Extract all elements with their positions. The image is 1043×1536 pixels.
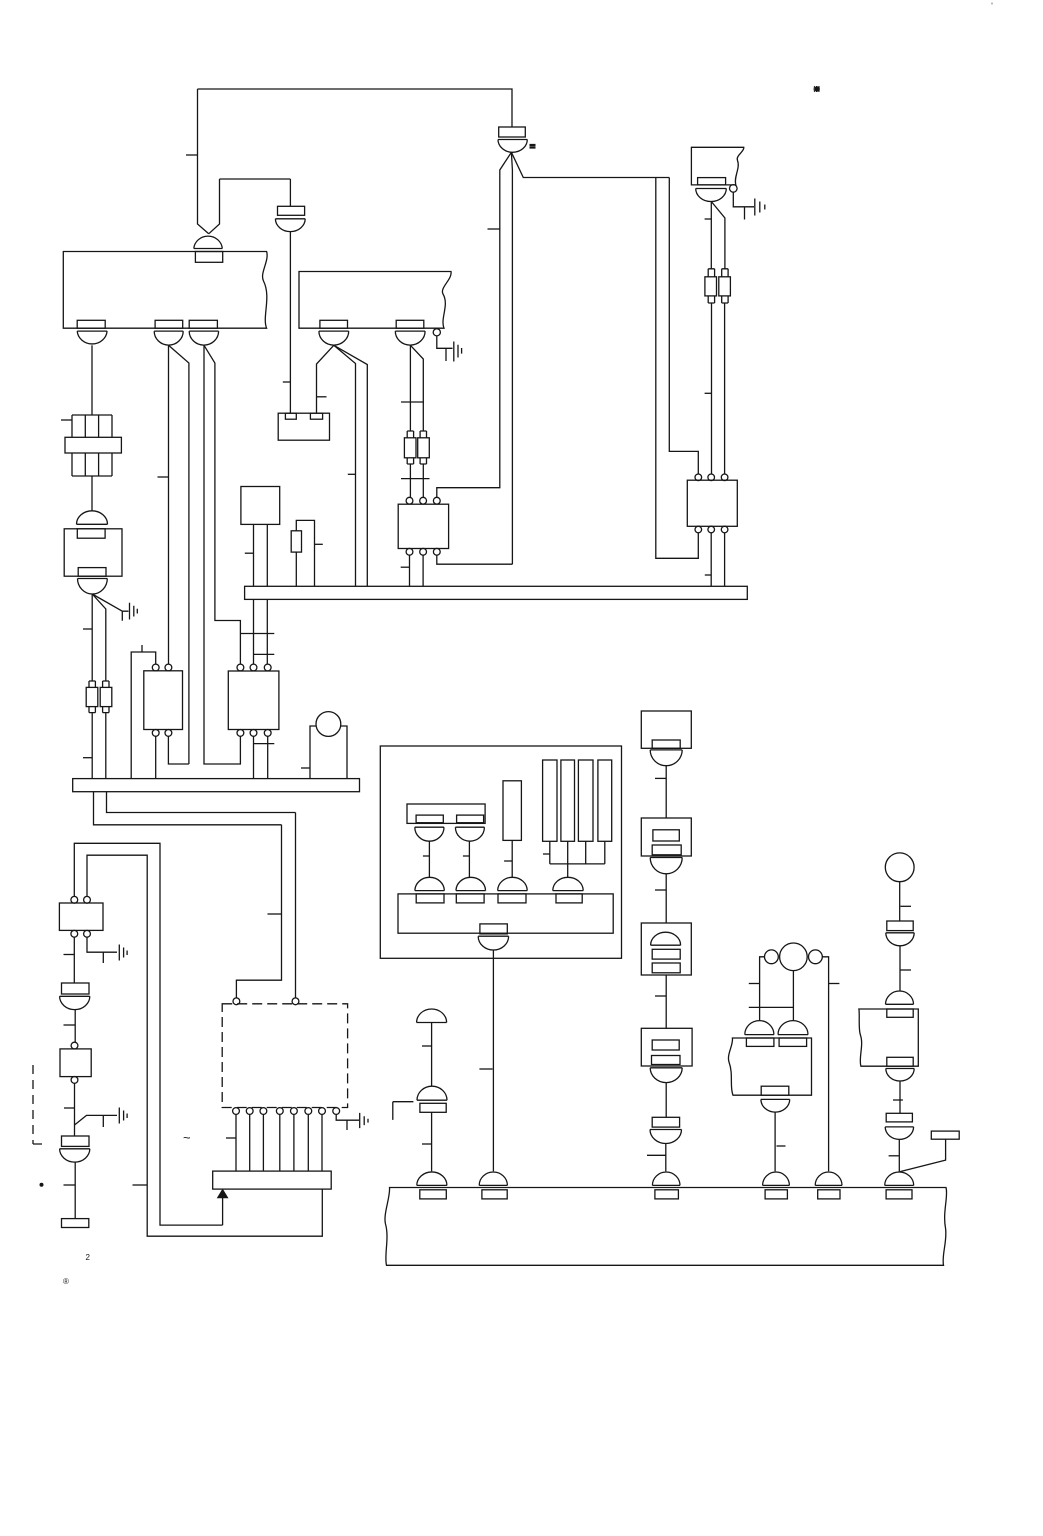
wire K2 bell down x92	[91, 594, 93, 681]
connector bell bar pin1	[415, 827, 444, 841]
washer motor assembly left small circle	[765, 950, 779, 964]
washer motor right small circle	[809, 950, 823, 964]
wire F5 down to relay R3	[711, 303, 713, 474]
S1 inner rect2	[652, 845, 681, 855]
motor bracket left	[760, 957, 765, 1021]
fuse F5 inline	[708, 269, 714, 277]
wire x295 down to ECU pin2	[295, 813, 297, 998]
warning lamp rect2	[561, 760, 575, 841]
wire connector C12 down to junction block	[289, 232, 291, 414]
connector C3 rect	[62, 1136, 90, 1146]
dome inside P1	[651, 932, 681, 945]
wire K2 bell diagonal x105	[92, 594, 106, 681]
switch lever rect	[931, 1131, 959, 1139]
svg-text:®: ®	[63, 1277, 69, 1286]
wire bar pin2 to gauge dome2	[468, 841, 470, 877]
wire F2 to relay R2 pin	[422, 464, 424, 497]
fuse F1 inline	[407, 431, 413, 438]
LB pin circles bottom	[71, 930, 78, 937]
wire R2 bottom pin1 to bus1	[409, 555, 411, 586]
wire C10 straight down x512	[511, 152, 512, 564]
S2 inner rect2	[652, 1056, 681, 1065]
wire box2 pin1 diagonal to junction block	[317, 345, 334, 413]
relay R4 pin circles bottom	[237, 730, 244, 737]
tick on wire x197	[186, 154, 198, 156]
wire F1 to relay R2 pin	[409, 464, 411, 497]
warning lamp rect4	[598, 760, 612, 841]
component box K2	[64, 529, 122, 576]
tick x431 upper	[422, 1045, 432, 1047]
tick on wire x314	[315, 543, 323, 545]
connector rect in H1	[652, 740, 680, 748]
tick x666 y996	[655, 995, 666, 997]
dome on bus3 wiper	[763, 1172, 790, 1185]
tick on wire x281	[268, 913, 282, 915]
instrument cluster outer box	[380, 746, 621, 958]
wire C31 to bus3	[898, 1139, 900, 1171]
socket rect bus3 wiper	[765, 1190, 787, 1199]
wire J2 to bus1 right	[266, 524, 268, 586]
wiper connector bell up1	[745, 1021, 774, 1035]
terminal lug	[62, 1219, 89, 1228]
wire bus1 to relay RB pin2	[253, 599, 255, 664]
radio box with torn left edge	[859, 1009, 918, 1066]
wire drop x669 to R3 top pin1	[669, 178, 698, 475]
cluster dome1	[415, 877, 444, 890]
blower switch box S2	[641, 1028, 692, 1066]
connector rect wiper bottom	[761, 1086, 789, 1095]
socket rect under dome2	[456, 894, 484, 903]
svg-text:~: ~	[183, 1130, 191, 1145]
connector rect in B3 bottom	[698, 178, 726, 185]
wire C1 down to dome	[91, 476, 93, 511]
horn circle	[316, 712, 341, 737]
relay R4 pin circles top	[237, 664, 244, 671]
wire drop x655 to R3 bottom pin1	[656, 178, 699, 559]
wire resistor bottom to bus1	[295, 552, 297, 586]
connector rect radio top	[887, 1009, 913, 1017]
connector C20 rect	[652, 1117, 679, 1127]
dome on bus3 washer	[417, 1172, 447, 1185]
tick vertical on loop	[141, 645, 143, 652]
tick on wire x711 at bus	[705, 574, 711, 576]
dome on bus3 cluster	[479, 1172, 507, 1185]
tick x493	[479, 1068, 492, 1070]
tick on horn body	[301, 767, 310, 769]
sensor box pin circle top	[71, 1042, 78, 1049]
wire R2 bottom pin3 to long feed x512	[437, 555, 513, 564]
multiplug connector stack C1	[72, 415, 112, 437]
wire washer to bus3	[431, 1112, 433, 1171]
connector C12 socket bell	[275, 219, 305, 232]
wire radio down	[899, 1081, 901, 1113]
washer motor big circle	[780, 943, 808, 971]
relay R4 box	[228, 671, 279, 730]
tick on wire x316	[317, 396, 327, 398]
wire R4 bottom pin2 to bus2	[253, 736, 255, 778]
ECU pin wires to connector bar	[236, 1114, 322, 1171]
wire R2 top pin3 to long feed x500	[437, 488, 501, 498]
tick on wire x499	[488, 228, 500, 230]
wire big circle down	[792, 971, 794, 1021]
cable tick crossing fuse wires y402	[401, 401, 424, 403]
wire antenna down	[899, 882, 901, 921]
connector rect wiper top1	[746, 1038, 774, 1046]
connector bell under H1	[650, 750, 682, 766]
wire S2 down	[665, 1083, 667, 1118]
wire x281 down to ECU pin1	[236, 825, 281, 998]
tick on wire x74 y954	[64, 954, 75, 956]
wire box2 pin2 down to fuse F1	[409, 345, 411, 431]
LB pin circles top	[71, 896, 78, 903]
wire C30 down	[899, 946, 901, 991]
wire LB top pin1 long loop	[74, 843, 222, 1225]
sensor box pin circle bottom	[71, 1077, 78, 1084]
tick on wire x92 lower	[83, 757, 92, 759]
cluster dome3	[498, 877, 528, 890]
connector bell under S1	[650, 858, 682, 874]
cable tick crossing fuse wires y478	[401, 478, 430, 480]
tiny label 4M	[530, 145, 536, 148]
wire bus1 to relay RB pin3	[266, 599, 268, 664]
relay R2 pin circles top	[406, 497, 413, 504]
wire R2 bottom pin2 to bus1	[422, 555, 424, 586]
left junction box LB	[59, 903, 103, 930]
horn rectangle body	[310, 726, 347, 779]
wire sensor down	[74, 1083, 76, 1136]
connector bell bar bottom	[478, 936, 508, 950]
connector rect pin1 box2	[320, 320, 348, 328]
connector rect pin2 box2	[396, 320, 424, 328]
warning lamp rect3	[578, 760, 593, 841]
wire branch horizontal y179	[220, 178, 291, 180]
ECU pin circle top2	[292, 998, 299, 1005]
ECU pin circle top1	[233, 998, 240, 1005]
connector bell radio bottom	[886, 1069, 914, 1082]
connector dome on fuse box top	[194, 236, 223, 248]
bus bar 1	[245, 586, 748, 599]
wire box2 pin1 branch to bus x367	[334, 345, 368, 586]
wiper connector bell up2	[778, 1021, 808, 1035]
wire P1 down	[665, 975, 667, 1028]
wire pin3 bell straight down x204	[204, 345, 240, 764]
tick on wire x355	[348, 473, 356, 475]
S1 inner rect1	[653, 830, 679, 841]
tick x774	[777, 1145, 786, 1147]
connector C20 bell	[650, 1130, 682, 1144]
resistor R	[291, 531, 301, 552]
tick x470	[463, 855, 470, 857]
relay R2 pin circles bottom	[406, 548, 413, 555]
cable tick crossing y633	[241, 633, 274, 635]
socket rect bus3 cluster	[482, 1190, 507, 1199]
dome above K2 box	[77, 511, 108, 524]
junction box J2	[241, 487, 280, 525]
cluster dome4	[553, 877, 583, 890]
fuse F4 inline	[103, 681, 109, 687]
ECU pin circles bottom	[233, 1108, 240, 1115]
connector bell pin2 box2	[395, 331, 425, 345]
wire gauge element to dome3	[511, 840, 513, 877]
socket rect under dome3	[498, 894, 526, 903]
wire box2 pin2 diagonal to fuse F2	[410, 345, 423, 431]
fuse F3 inline	[89, 681, 95, 687]
bracket at washer connector	[393, 1102, 414, 1120]
cluster inner top bar	[407, 804, 485, 823]
ground pigtail circle at B3	[730, 185, 738, 193]
tick x666 y778	[655, 777, 666, 779]
connector rect inside fuse box top	[195, 252, 222, 263]
tick on wire x74 y1025	[64, 1024, 76, 1026]
connector C31 bell	[885, 1127, 913, 1139]
wire C10 branch right to ignition feed	[511, 152, 669, 177]
dome on bus3 heater	[652, 1172, 680, 1185]
cluster inner bottom bar	[398, 894, 613, 933]
relay R1 box	[144, 671, 183, 730]
tick x899 y1156	[889, 1155, 899, 1157]
socket rect under dome4	[556, 894, 582, 903]
connector bell under S2	[650, 1068, 682, 1083]
wire C3 to terminal	[74, 1162, 76, 1219]
socket rect bus3 washer	[420, 1190, 447, 1199]
P1 inner rect1	[652, 949, 680, 959]
fuse box (dash panel) with torn right edge	[63, 252, 267, 329]
tick x666 y1155	[647, 1154, 666, 1156]
connector bell pin2 fuse box	[154, 331, 183, 345]
alternator box B3 with torn right edge	[691, 147, 743, 185]
motor bracket right	[822, 957, 828, 1172]
connector rect radio bottom	[887, 1057, 913, 1066]
cable tick crossing y654	[254, 653, 275, 655]
ground symbol G2	[437, 336, 462, 362]
wire top feed horizontal from battery column	[198, 89, 513, 127]
ECU dashed box	[222, 1004, 347, 1108]
tick on wire x409	[401, 566, 410, 568]
wire F4 to bus2	[105, 713, 107, 779]
cable tick crossing y1007	[749, 1006, 794, 1008]
wire R3 bottom pin2 to bus1	[710, 533, 712, 587]
gauge element tall rect	[503, 781, 521, 841]
wire B3 bell diagonal x725	[711, 202, 725, 269]
wire common to dome4	[567, 864, 569, 877]
wire drop to connector C12	[289, 179, 291, 206]
wire R1 bottom pin2 joins x189	[168, 736, 189, 764]
warning lamp rect1	[543, 760, 557, 841]
washer connector dome	[417, 1086, 447, 1100]
wire B3 bell down x711	[710, 202, 712, 269]
wire cluster to bus3	[492, 950, 494, 1171]
relay R2 box	[398, 504, 448, 548]
connector rect pin3 fuse box bottom	[189, 320, 217, 328]
switch box S1	[641, 818, 691, 856]
dome on bus3 motor	[815, 1172, 842, 1185]
resistor pack box P1	[641, 923, 691, 975]
tick x430	[423, 855, 430, 857]
asterisk mark top right	[814, 86, 821, 92]
connector rect pin2 fuse box bottom	[155, 320, 183, 328]
wire F3 to bus2	[91, 713, 93, 779]
wire R4 bottom pin3 to bus2	[267, 736, 269, 778]
ground pigtail circle at box2 corner	[433, 329, 440, 336]
connector C2 rect	[62, 983, 90, 994]
relay R3 box	[687, 480, 737, 526]
tick x666 y890	[655, 889, 666, 891]
wire R1 top pin1 loop to bus2	[131, 652, 156, 779]
socket rect bus3 heater	[655, 1190, 679, 1199]
connector C12 plug rect	[278, 206, 305, 215]
dome on bus3 radio	[885, 1172, 914, 1185]
tick left bracket	[749, 983, 760, 985]
connector bell under B3	[696, 189, 727, 202]
tick on lamp common	[543, 853, 550, 855]
relay R3 pin circles top	[695, 474, 702, 481]
wiper motor box with torn left edge	[728, 1038, 811, 1095]
wire pin2 bell straight down to relay R1	[168, 345, 170, 664]
connector bell pin3 fuse box	[189, 331, 218, 345]
connector rect bar pin1	[416, 815, 443, 823]
wire bus2 drop x106 loop right	[107, 792, 296, 813]
dashed boundary bracket	[33, 1065, 48, 1144]
P1 inner rect2	[652, 963, 680, 973]
relay R1 pin circles bottom	[152, 730, 159, 737]
connector bell pin1 box2	[319, 331, 349, 345]
tick x512	[504, 860, 512, 862]
cluster dome2	[456, 877, 486, 890]
wire LB bottom pin2 to ground G4	[87, 937, 127, 963]
S2 inner rect1	[652, 1040, 679, 1050]
connector rect wiper top2	[779, 1038, 807, 1046]
wire LB top pin2 long loop	[87, 855, 322, 1236]
tick right bracket	[829, 983, 840, 985]
washer connector rect	[420, 1103, 446, 1112]
lamp drop wires to common	[550, 841, 605, 864]
fuse F2 inline	[420, 431, 426, 438]
washer pump dome top	[417, 1009, 447, 1023]
wire R3 bottom pin3 to bus1	[724, 533, 726, 587]
connector rect K2 top	[77, 529, 105, 538]
svg-text:2: 2	[86, 1253, 91, 1262]
tick on wire x711 upper	[705, 218, 712, 220]
connector rect bar pin2	[457, 815, 484, 823]
connector bar under ECU	[213, 1171, 332, 1189]
switch lever stem and blade	[900, 1139, 946, 1171]
connector bell under K2	[78, 579, 108, 595]
instrument harness box2 with torn right edge	[299, 272, 451, 329]
ground G6 from ECU pin8	[336, 1113, 368, 1130]
connector rect K2 bottom	[78, 568, 106, 577]
socket rect bus3 radio	[886, 1190, 912, 1199]
relay R1 pin circles top	[152, 664, 159, 671]
tick on ECU pin1 wire	[226, 1137, 236, 1139]
tick x900 y970	[901, 969, 912, 971]
tick on wire x74 y1185	[64, 1184, 76, 1186]
connector bell bar pin2	[455, 827, 484, 841]
tick on wire x711 lower	[705, 392, 712, 394]
wire bar pin1 to gauge dome1	[428, 841, 430, 877]
wire F6 down to relay R3	[724, 303, 726, 474]
connector bell wiper bottom	[761, 1099, 790, 1112]
wire pin1 bell down to multiplug	[91, 345, 93, 415]
bus bar 3 with torn edges	[385, 1188, 947, 1266]
tiny dot top right corner	[991, 3, 993, 5]
connector C30 bell	[886, 933, 914, 946]
dot mark	[40, 1183, 44, 1187]
antenna circle	[885, 853, 914, 882]
connector C10 bell	[498, 140, 527, 153]
tick x900 y906	[901, 905, 912, 907]
wire C10 to R2 top feed x500	[500, 152, 512, 487]
connector bell pin1 fuse box	[77, 331, 107, 344]
wire H1 down	[665, 766, 667, 818]
tick on wire x168	[158, 476, 169, 478]
ground spur G5	[75, 1108, 128, 1128]
socket rect bus3 motor	[818, 1190, 840, 1199]
ground spur G3 from K2 bell	[92, 594, 137, 621]
wire R1 bottom pin1 to bus2	[155, 736, 157, 778]
wire pin2 bell diagonal branch x189	[169, 345, 189, 764]
wire box2 pin1 branch to bus x355	[334, 345, 356, 586]
ground symbol G1	[733, 192, 765, 219]
wire second drop of V from branch	[209, 179, 220, 234]
socket rect under dome1	[416, 894, 444, 903]
heater box H1	[641, 711, 691, 748]
sensor box	[60, 1049, 91, 1077]
connector C30 rect	[887, 921, 913, 931]
wire C20 to bus3	[665, 1144, 667, 1172]
tick on wire x74 y1108	[64, 1107, 75, 1109]
wire pin3 bell diagonal branch x215	[204, 345, 240, 664]
fuse F6 inline	[722, 269, 728, 277]
wire wiper to bus3	[774, 1112, 776, 1171]
relay R3 pin circles bottom	[695, 526, 702, 533]
tick on wire x92 upper	[83, 628, 92, 630]
bus bar 2	[73, 779, 360, 792]
arrow into connector bar	[222, 1197, 224, 1225]
tick x900 y1100	[893, 1099, 903, 1101]
cable tick crossing y743	[254, 743, 275, 745]
connector C3 bell	[60, 1149, 90, 1162]
connector C2 bell	[60, 996, 90, 1009]
wire C2 to sensor box	[74, 1009, 76, 1042]
wire S1 down	[665, 874, 667, 923]
wire resistor top loop to bus1	[296, 520, 314, 586]
connector C31 rect	[886, 1113, 912, 1122]
wire LB bottom pin1 down	[73, 937, 75, 983]
tick on wire x253	[245, 552, 254, 554]
connector rect pin1 fuse box bottom	[77, 320, 105, 328]
connector C10 main feed rect	[499, 127, 526, 137]
junction block with two notches	[278, 413, 329, 440]
tick x431 lower	[422, 1143, 432, 1145]
tick on wire x290	[283, 381, 291, 383]
wire washer dome down	[431, 1023, 433, 1087]
wire bus2 drop x93 loop right	[94, 792, 282, 825]
tick on C1	[61, 419, 72, 421]
connector rect bar bottom	[480, 924, 507, 934]
tick on wire x147	[133, 1184, 148, 1186]
wire left drop with taper into connector V	[198, 89, 209, 234]
radio connector dome up	[886, 991, 914, 1004]
wire J2 to bus1 left	[253, 524, 255, 586]
